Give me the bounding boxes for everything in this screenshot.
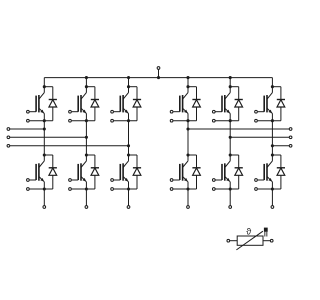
svg-text:ϑ: ϑ	[246, 226, 251, 236]
